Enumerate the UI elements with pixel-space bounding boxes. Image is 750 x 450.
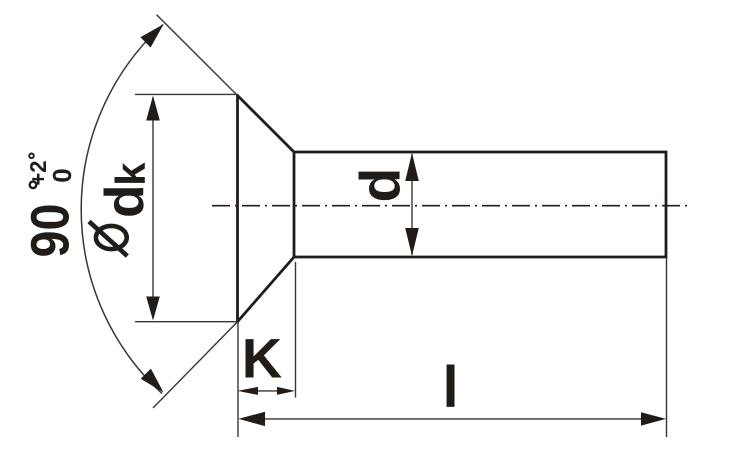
svg-text:90: 90 (21, 204, 81, 258)
svg-text:d: d (349, 168, 413, 203)
svg-text:k: k (107, 162, 154, 186)
svg-text:l: l (443, 355, 459, 420)
svg-text:K: K (242, 327, 282, 390)
svg-text:d: d (93, 184, 155, 218)
svg-text:0: 0 (47, 168, 77, 182)
